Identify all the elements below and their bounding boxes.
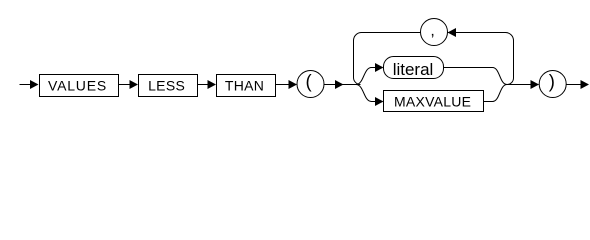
svg-text:THAN: THAN <box>225 77 264 93</box>
svg-text:): ) <box>549 71 555 92</box>
svg-text:LESS: LESS <box>148 77 185 93</box>
svg-text:(: ( <box>306 71 313 92</box>
svg-text:VALUES: VALUES <box>48 77 107 93</box>
svg-text:literal: literal <box>393 60 434 79</box>
svg-text:MAXVALUE: MAXVALUE <box>394 93 471 109</box>
svg-text:,: , <box>430 23 434 40</box>
